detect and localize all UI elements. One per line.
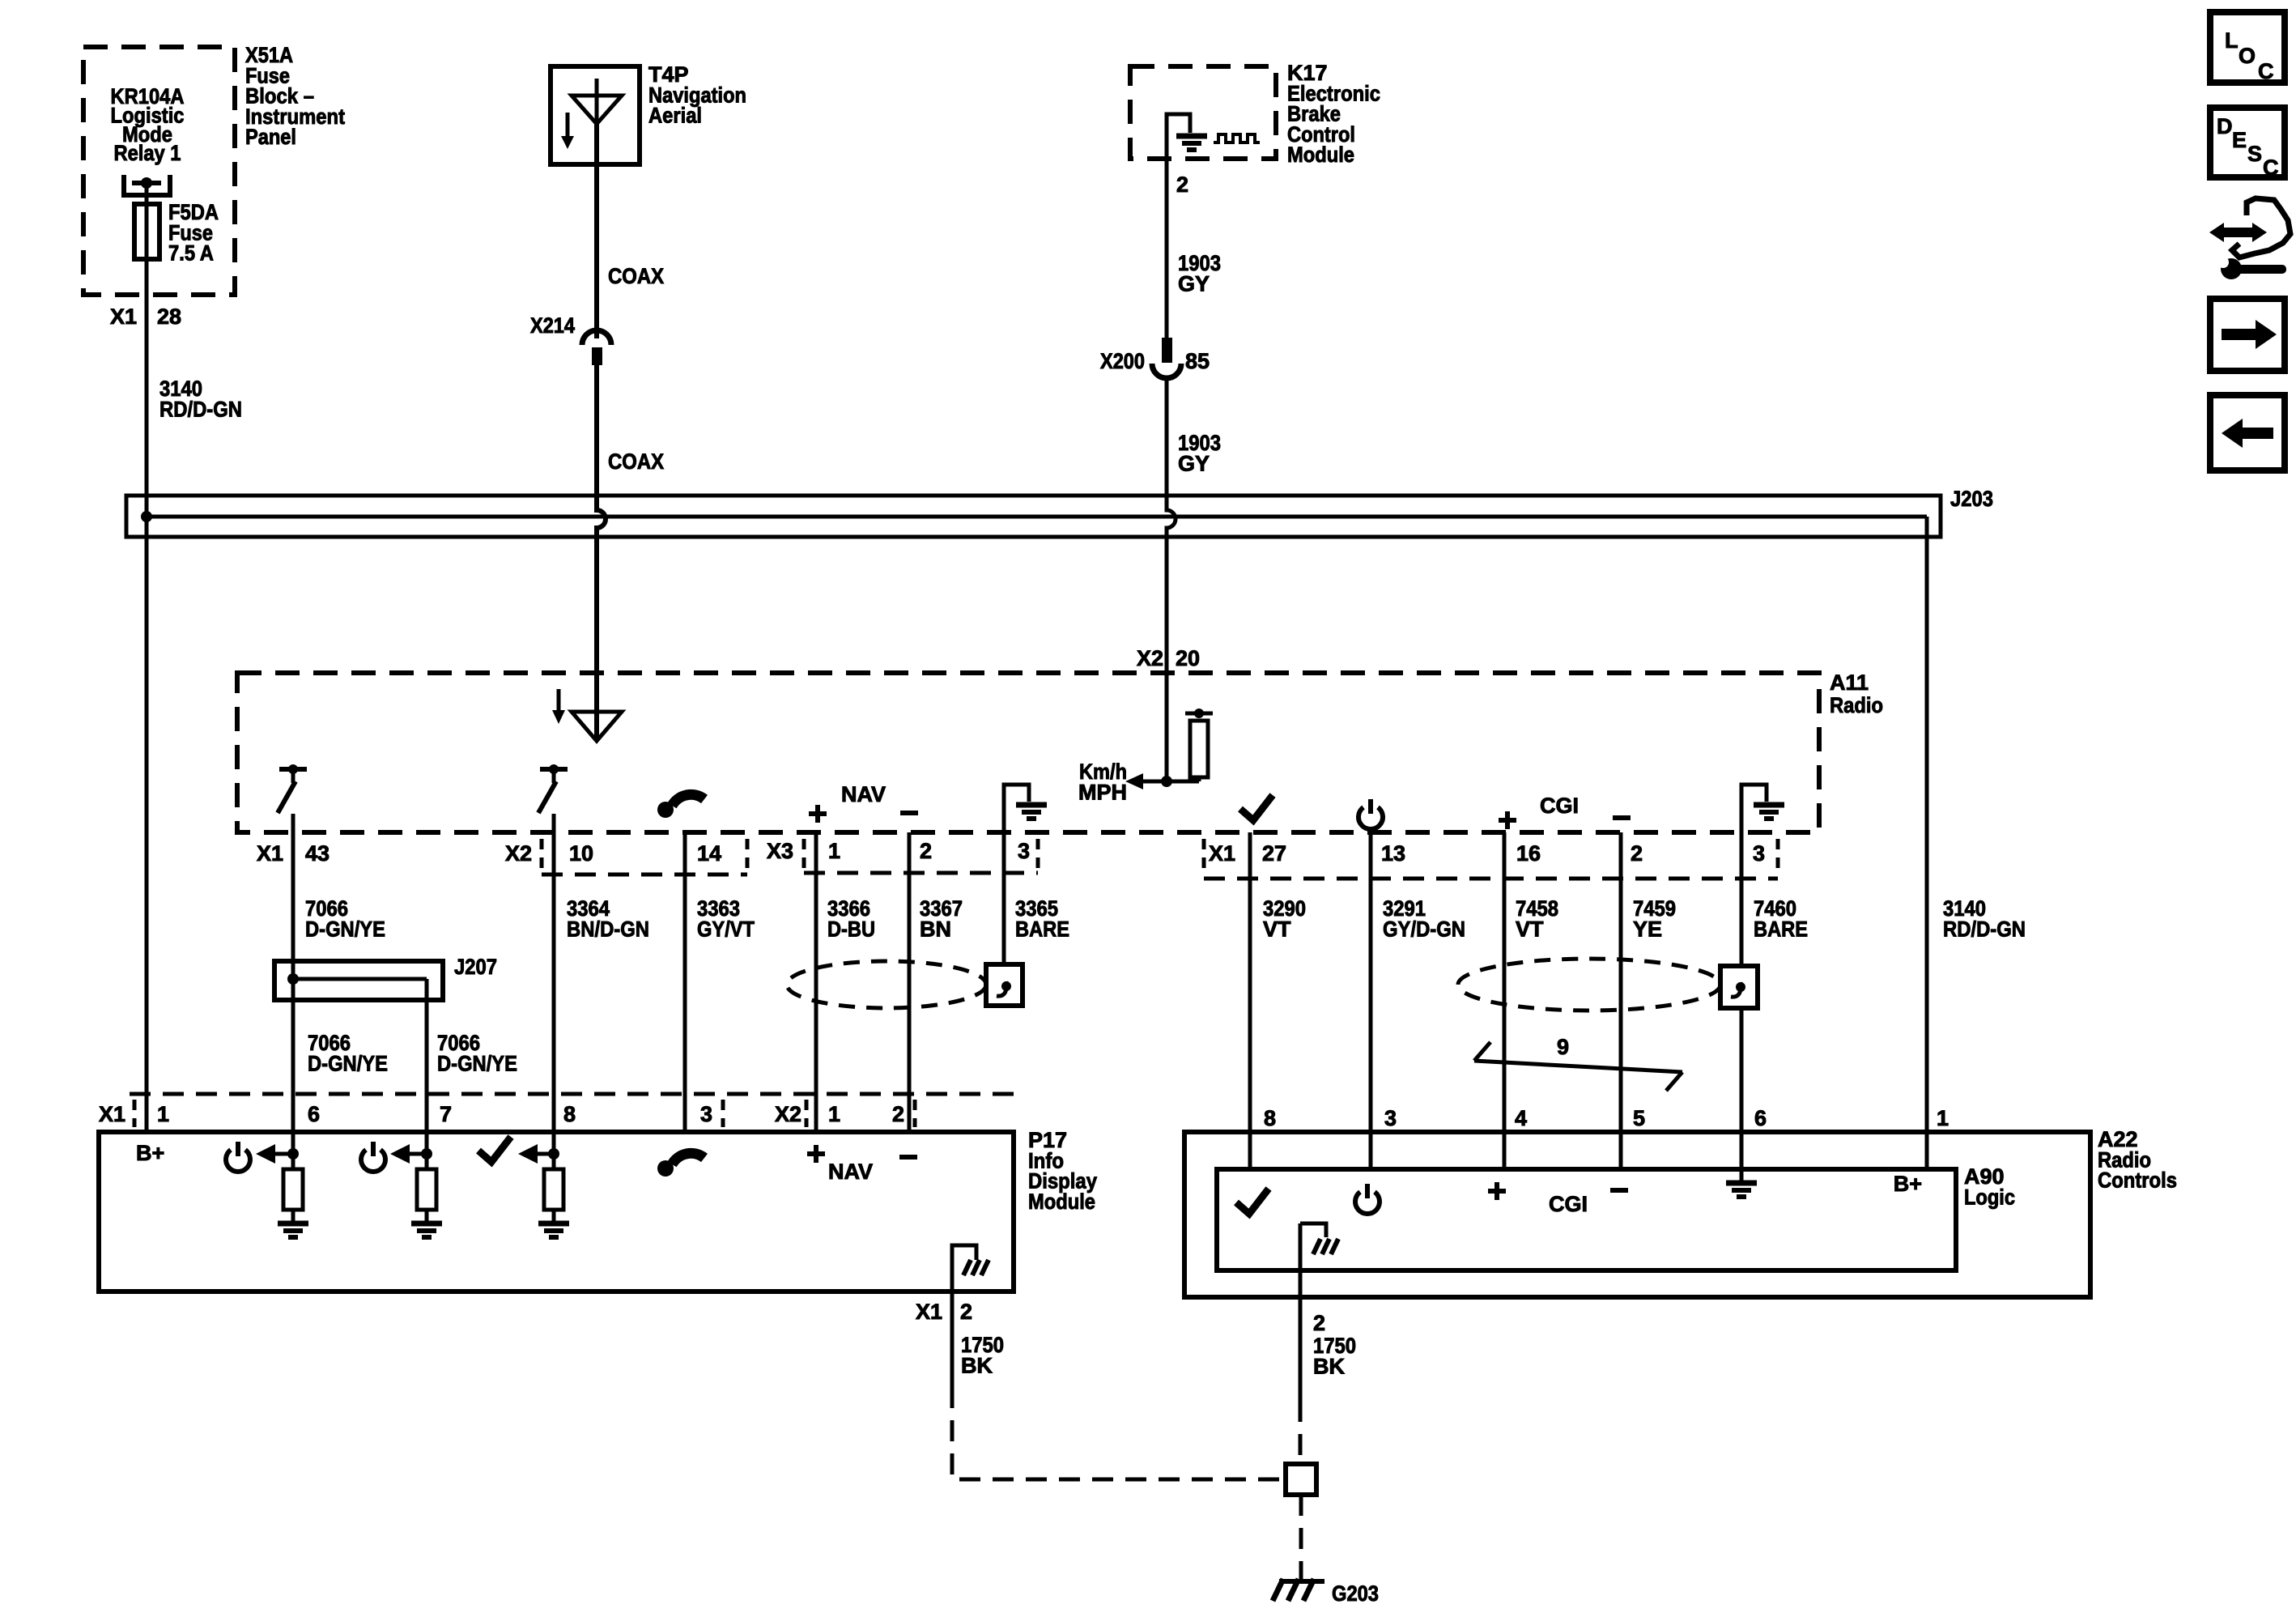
svg-text:X3: X3 — [767, 839, 793, 863]
wire 7066 D-GN/YE (pin 43 to P17 pin 6) — [291, 814, 296, 1169]
ground bars 1 in P17 — [278, 1223, 308, 1237]
svg-text:X1: X1 — [257, 841, 283, 866]
svg-text:COAX: COAX — [608, 264, 664, 288]
wire 7458 VT (16 to A90 pin 4) — [1503, 832, 1507, 1169]
svg-text:S: S — [2247, 142, 2262, 166]
splice J207 — [274, 961, 443, 1000]
wire 3364 BN/D-GN (pin 10 to P17 pin 8) — [552, 814, 556, 1169]
svg-text:C: C — [2258, 59, 2274, 83]
ground bars 3 in P17 — [538, 1223, 569, 1237]
brake control module K17 dashed box — [1130, 66, 1276, 159]
wire 3291 GY/D-GN (13 to A90 pin 3) — [1369, 832, 1373, 1169]
svg-text:3: 3 — [700, 1102, 712, 1126]
svg-text:6: 6 — [1754, 1106, 1767, 1130]
svg-text:2: 2 — [1631, 841, 1643, 866]
connector bracket X1 at radio right — [1204, 839, 1778, 879]
wire 1750 BK dashed right — [1299, 1401, 1303, 1464]
svg-text:VT: VT — [1263, 917, 1291, 941]
splice J203 harness outline — [126, 496, 1941, 537]
svg-text:Logic: Logic — [1964, 1185, 2015, 1209]
svg-text:Module: Module — [1028, 1189, 1095, 1214]
ground in K17 — [1167, 114, 1190, 159]
power symbol 1 in P17 — [226, 1142, 250, 1172]
aerial T4P antenna symbol — [572, 79, 622, 124]
RF pin symbol X1 43 — [278, 764, 307, 813]
relay KR104A contact bar — [132, 181, 161, 185]
svg-text:2: 2 — [960, 1300, 972, 1324]
svg-text:14: 14 — [697, 841, 721, 866]
fuse F5DA — [134, 204, 159, 259]
wire 3365 BARE (X3 3 to shield) — [1002, 832, 1006, 964]
aerial receive arrow — [561, 113, 574, 149]
ground bars 2 in P17 — [411, 1223, 442, 1237]
svg-text:3: 3 — [1753, 841, 1765, 866]
svg-text:Panel: Panel — [245, 125, 296, 149]
svg-text:43: 43 — [305, 841, 330, 866]
speed signal arrow Km/h MPH — [1125, 773, 1199, 789]
P17 pin labels — [99, 1102, 904, 1126]
splice J203 bus line — [147, 515, 1927, 519]
wire 3363 label — [697, 896, 755, 941]
svg-text:D-GN/YE: D-GN/YE — [437, 1051, 517, 1075]
shield terminator square right — [1720, 966, 1758, 1008]
wire 3366 D-BU (X3 1 to P17 X2 1) — [814, 832, 818, 1132]
svg-text:Controls: Controls — [2098, 1168, 2177, 1193]
wire 3140 RD/D-GN label right — [1943, 896, 2026, 941]
wire COAX lower (hops over J203 bus) — [597, 364, 606, 741]
wire 1903 GY lower (hops over J203 bus) — [1167, 377, 1176, 781]
power symbol in radio — [1358, 799, 1383, 829]
icon arrow left box — [2210, 395, 2285, 470]
svg-text:J207: J207 — [454, 955, 497, 979]
svg-text:BK: BK — [961, 1353, 993, 1377]
aerial T4P label — [648, 62, 746, 128]
svg-text:2: 2 — [920, 839, 932, 863]
icon arrow right box — [2210, 299, 2285, 371]
resistor in radio — [1185, 709, 1213, 781]
junction at speed signal — [1161, 776, 1172, 787]
wire 1903 GY label upper — [1178, 251, 1221, 296]
svg-text:Module: Module — [1287, 143, 1354, 167]
resistor 2 in P17 — [417, 1169, 436, 1210]
svg-text:1: 1 — [828, 1102, 840, 1126]
antenna arrow into radio — [572, 712, 622, 741]
svg-text:G203: G203 — [1332, 1581, 1379, 1606]
svg-text:27: 27 — [1262, 841, 1286, 866]
svg-text:X1: X1 — [916, 1300, 942, 1324]
svg-text:X200: X200 — [1100, 349, 1145, 373]
wire to ground 3 — [552, 1210, 556, 1221]
svg-text:Aerial: Aerial — [648, 104, 702, 128]
svg-text:B+: B+ — [136, 1141, 164, 1165]
check symbol in radio — [1240, 795, 1273, 820]
svg-text:4: 4 — [1515, 1106, 1527, 1130]
connector bracket X1/X2 above P17 — [130, 1094, 1014, 1127]
junction on wire 6 — [287, 1148, 299, 1160]
svg-text:3: 3 — [1018, 839, 1030, 863]
wire 7066 label — [305, 896, 385, 941]
connector X214 — [582, 330, 611, 365]
wire 7460 BARE (3 to A90 ground) — [1740, 832, 1744, 1181]
signal arrow 2 in P17 — [390, 1144, 427, 1164]
ground lead X3 3 in radio — [1004, 785, 1029, 964]
wire 1903 GY upper — [1165, 159, 1169, 338]
wire 7066 D-GN/YE (J207 to P17 pin 7) — [425, 979, 429, 1169]
wire 1903 GY label lower — [1178, 431, 1221, 475]
svg-text:J203: J203 — [1950, 487, 1993, 511]
signal arrow 3 in P17 — [518, 1144, 554, 1164]
wire 3290 VT (X1 27 to A90 pin 8) — [1248, 832, 1252, 1169]
radio controls A22 box — [1184, 1132, 2090, 1297]
svg-text:D-GN/YE: D-GN/YE — [305, 917, 385, 941]
wire 3367 label — [920, 896, 963, 941]
wire 3366 label — [827, 896, 875, 941]
svg-text:7.5 A: 7.5 A — [168, 241, 214, 266]
wire 3290 label — [1263, 896, 1306, 941]
chassis ground glyph in P17 — [963, 1260, 989, 1275]
CGI + in radio — [1499, 811, 1516, 829]
wire 3364 label — [567, 896, 649, 941]
shield terminator square left — [986, 964, 1023, 1006]
ground bars X1 3 in radio — [1754, 805, 1784, 819]
svg-text:X2: X2 — [505, 841, 532, 866]
svg-text:1: 1 — [828, 839, 840, 863]
svg-text:2: 2 — [892, 1102, 904, 1126]
svg-text:L: L — [2225, 28, 2239, 53]
wire 3140 RD/D-GN left (fuse to P17 pin 1) — [145, 183, 149, 1132]
fuse F5DA label — [168, 200, 219, 266]
wire 1750 BK label right — [1313, 1334, 1356, 1378]
svg-text:CGI: CGI — [1549, 1192, 1588, 1216]
svg-text:O: O — [2239, 44, 2256, 68]
svg-text:NAV: NAV — [828, 1160, 873, 1184]
radio controls A22 label — [2098, 1127, 2177, 1193]
label Km/h MPH — [1078, 760, 1127, 804]
svg-text:10: 10 — [569, 841, 593, 866]
wire 1750 BK dashed to G203 — [952, 1387, 1286, 1479]
wire 3367 BN (X3 2 to P17 X2 2) — [908, 832, 912, 1132]
wire 3140 RD/D-GN label upper — [159, 377, 242, 421]
A22 pin labels — [1264, 1106, 1949, 1130]
svg-text:GY/D-GN: GY/D-GN — [1383, 917, 1465, 941]
shield ellipse NAV pair — [787, 961, 986, 1008]
svg-text:D-BU: D-BU — [827, 917, 875, 941]
signal arrow 1 in P17 — [256, 1144, 293, 1164]
wire 3140 RD/D-GN right (J203 to A22 pin 1) — [1925, 517, 1929, 1169]
wire to ground 2 — [425, 1210, 429, 1221]
check symbol in A90 — [1236, 1189, 1269, 1214]
logic module A90 box — [1217, 1169, 1956, 1270]
svg-text:BARE: BARE — [1015, 917, 1069, 941]
svg-text:C: C — [2263, 155, 2279, 180]
svg-text:GY: GY — [1178, 271, 1210, 296]
fuse block X51A label — [245, 43, 345, 149]
svg-text:CGI: CGI — [1540, 794, 1579, 818]
svg-text:3: 3 — [1384, 1106, 1397, 1130]
power symbol 2 in P17 — [361, 1142, 385, 1172]
wire 7066 label a — [308, 1031, 388, 1075]
relay KR104A contact bracket — [124, 175, 170, 195]
svg-text:VT: VT — [1516, 917, 1544, 941]
svg-text:YE: YE — [1633, 917, 1662, 941]
fuse block X51A dashed box — [83, 47, 235, 295]
svg-text:1: 1 — [1937, 1106, 1949, 1130]
display module P17 label — [1028, 1128, 1097, 1214]
wire 1750 BK from A90 — [1299, 1223, 1303, 1401]
connector bracket X3 at radio — [804, 839, 1038, 873]
svg-text:GY/VT: GY/VT — [697, 917, 755, 941]
CGI - in radio — [1613, 815, 1631, 820]
wire to ground 1 — [291, 1210, 296, 1221]
wire 1750 BK from P17 — [950, 1291, 955, 1387]
wire 3365 label — [1015, 896, 1069, 941]
svg-text:RD/D-GN: RD/D-GN — [1943, 917, 2026, 941]
brake control module K17 label — [1287, 61, 1380, 167]
wire 3363 GY/VT (pin 14 to P17 pin 3) — [683, 832, 687, 1132]
svg-text:D-GN/YE: D-GN/YE — [308, 1051, 388, 1075]
phone symbol in radio — [657, 794, 704, 818]
junction on wire 8 — [548, 1148, 559, 1160]
svg-text:MPH: MPH — [1078, 780, 1127, 804]
junction on J203 — [141, 511, 152, 522]
wire 7460 label — [1754, 896, 1808, 941]
svg-text:2: 2 — [1176, 172, 1188, 197]
radio A11 label — [1830, 670, 1883, 717]
svg-text:16: 16 — [1516, 841, 1541, 866]
svg-text:X214: X214 — [530, 313, 575, 338]
radio A11 dashed box — [237, 673, 1819, 832]
CGI - in A90 — [1610, 1188, 1628, 1193]
svg-text:28: 28 — [157, 304, 181, 329]
shield ellipse CGI pair — [1458, 959, 1720, 1011]
connector X200 — [1152, 338, 1181, 378]
NAV + in radio — [809, 805, 827, 823]
svg-text:BARE: BARE — [1754, 917, 1808, 941]
resistor 1 in P17 — [283, 1169, 303, 1210]
svg-text:BN: BN — [920, 917, 951, 941]
wire COAX upper — [594, 124, 599, 338]
svg-text:COAX: COAX — [608, 449, 664, 474]
svg-text:Relay 1: Relay 1 — [114, 141, 181, 165]
chassis ground bars in A90 — [1726, 1183, 1757, 1197]
aerial T4P box — [551, 66, 640, 164]
wire 7459 label — [1633, 896, 1676, 941]
svg-text:1: 1 — [157, 1102, 169, 1126]
ground lead in P17 — [952, 1245, 976, 1291]
NAV - in P17 — [899, 1155, 917, 1160]
ground bars X3 3 in radio — [1016, 805, 1047, 819]
phone symbol in P17 — [657, 1153, 704, 1177]
RF pin symbol X2 10 — [538, 764, 568, 813]
svg-text:7: 7 — [440, 1102, 452, 1126]
svg-text:D: D — [2217, 114, 2233, 138]
ground G203 glyph — [1273, 1579, 1324, 1601]
twisted pair marker 9 — [1474, 1042, 1682, 1091]
svg-text:A11: A11 — [1830, 670, 1869, 695]
svg-text:GY: GY — [1178, 451, 1210, 475]
logic module A90 label — [1964, 1164, 2015, 1209]
ground bars in K17 — [1176, 136, 1207, 150]
NAV + in P17 — [807, 1145, 825, 1163]
svg-text:NAV: NAV — [841, 782, 886, 806]
svg-text:6: 6 — [308, 1102, 320, 1126]
ground splice square — [1286, 1464, 1316, 1495]
chassis ground glyph in A90 — [1313, 1239, 1338, 1254]
junction on wire 7 — [421, 1148, 432, 1160]
ground lead X1 3 in radio — [1741, 785, 1767, 832]
dashed wire to G203 — [1299, 1495, 1303, 1574]
CGI + in A90 — [1488, 1182, 1506, 1200]
wire 7066 label b — [437, 1031, 517, 1075]
relay KR104A label — [111, 84, 185, 165]
wire 1750 BK label left — [961, 1333, 1004, 1377]
svg-text:BK: BK — [1313, 1354, 1345, 1378]
NAV - in radio — [900, 811, 918, 815]
info display module P17 box — [99, 1132, 1014, 1291]
svg-text:85: 85 — [1185, 349, 1210, 373]
pulse signal symbol in K17 — [1214, 134, 1260, 143]
svg-text:X1: X1 — [99, 1102, 125, 1126]
svg-text:B+: B+ — [1894, 1172, 1922, 1196]
svg-text:BN/D-GN: BN/D-GN — [567, 917, 649, 941]
wire stub at G203 — [1299, 1574, 1303, 1580]
icon LOC box — [2210, 12, 2285, 83]
wire 7458 label — [1516, 896, 1558, 941]
wire 3291 label — [1383, 896, 1465, 941]
svg-text:X1: X1 — [110, 304, 137, 329]
power symbol in A90 — [1355, 1184, 1380, 1214]
icon DESC box — [2210, 108, 2285, 180]
icon diagnostic wrench — [2209, 198, 2290, 279]
svg-text:8: 8 — [563, 1102, 576, 1126]
svg-text:2: 2 — [1313, 1311, 1325, 1335]
svg-text:X2: X2 — [775, 1102, 801, 1126]
svg-text:X2: X2 — [1137, 646, 1163, 670]
svg-text:E: E — [2232, 128, 2247, 152]
wire 7459 YE (2 to A90 pin 5) — [1619, 832, 1623, 1169]
receive arrow into radio — [552, 689, 565, 724]
svg-text:RD/D-GN: RD/D-GN — [159, 397, 242, 421]
svg-text:8: 8 — [1264, 1106, 1276, 1130]
relay KR104A contact dot — [141, 177, 152, 189]
check symbol in P17 — [478, 1137, 511, 1162]
svg-text:5: 5 — [1633, 1106, 1645, 1130]
resistor 3 in P17 — [544, 1169, 563, 1210]
svg-text:X1: X1 — [1209, 841, 1235, 866]
svg-text:9: 9 — [1557, 1035, 1569, 1059]
ground lead in A90 — [1300, 1223, 1326, 1237]
connector bracket X2 at radio — [542, 839, 747, 874]
svg-text:13: 13 — [1381, 841, 1405, 866]
svg-text:Radio: Radio — [1830, 693, 1883, 717]
svg-text:20: 20 — [1176, 646, 1200, 670]
